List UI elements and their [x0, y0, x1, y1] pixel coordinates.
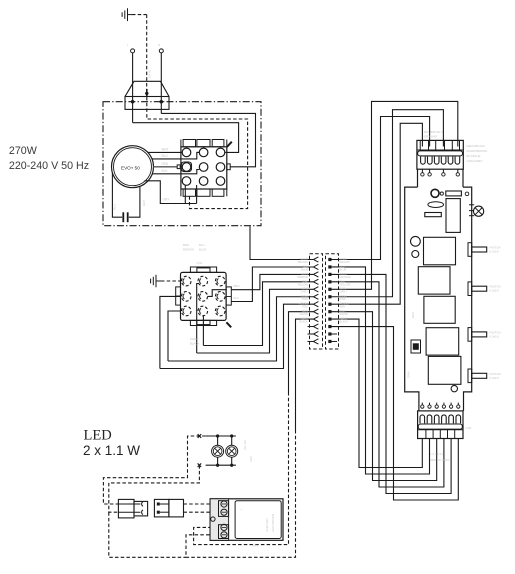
- X1 pin 2 (BLU): [199, 148, 208, 157]
- contact pair row 2: [313, 264, 331, 269]
- contact pair row 8: [313, 309, 331, 314]
- node dots on lamp buses: [216, 435, 233, 467]
- wire: jumper up to row3 col2: [196, 185, 198, 204]
- svg-text:GRY: GRY: [142, 200, 146, 206]
- svg-text:1 2 3 4 5 6: 1 2 3 4 5 6: [430, 452, 444, 456]
- fuse F1 body: [446, 191, 462, 196]
- wire: earth dashed route plug to motor connector: [147, 97, 248, 209]
- wire: CN2 to driver dashed 2: [184, 511, 219, 513]
- X2 pin 5: [198, 292, 208, 302]
- wire: X2 pin7 drop: [168, 311, 181, 361]
- wire: r2 to bottom connector pin 2: [332, 267, 430, 474]
- svg-text:BLK BRN BLU: BLK BRN BLU: [424, 130, 443, 134]
- svg-text:CN1: CN1: [197, 261, 203, 265]
- svg-text:GRY WHT: GRY WHT: [424, 135, 438, 139]
- LED driver PSU box: [210, 499, 283, 541]
- mount hole bottom: [451, 385, 457, 391]
- junction mark bottom: [198, 463, 202, 467]
- svg-text:YELLOW: YELLOW: [297, 282, 308, 286]
- svg-text:GRY: GRY: [411, 312, 415, 318]
- wire: r4 to bottom connector pin 4: [332, 282, 444, 487]
- svg-text:N: N: [158, 43, 160, 47]
- wire: r7 to top connector slot 1: [332, 123, 423, 304]
- svg-text:WHITE: WHITE: [340, 312, 349, 316]
- X2 left lug: [176, 287, 181, 305]
- motor connector X1 body: [181, 147, 227, 189]
- svg-text:BRN: BRN: [183, 243, 189, 247]
- control board outline: [405, 187, 419, 411]
- X1 pin 8 jumper: [199, 177, 208, 186]
- earth pin in plug: [145, 89, 148, 97]
- bottom connector body: [418, 411, 463, 439]
- X2 pin 4: [181, 292, 191, 302]
- plug X0 (mains terminal block): [125, 81, 169, 109]
- svg-text:BLACK: BLACK: [340, 320, 349, 324]
- X1 top lug 3: [212, 140, 224, 147]
- wire: L to motor connector (row1 right): [133, 123, 239, 153]
- relay K4: [426, 328, 459, 355]
- wire: r1 to top connector slot 2: [332, 117, 430, 260]
- wire: X2 right lug upper to r3: [231, 274, 313, 289]
- board top hook pin x=457.8: [456, 169, 459, 176]
- wire: CN2 to driver dashed 1: [184, 503, 219, 505]
- node: L at enclosure boundary: [131, 100, 134, 103]
- svg-text:EVO+ 50: EVO+ 50: [121, 165, 140, 170]
- svg-text:BLUE: BLUE: [301, 267, 308, 271]
- svg-text:GNYE: GNYE: [148, 70, 152, 78]
- svg-text:BROWN: BROWN: [298, 260, 308, 264]
- driver terminal 1: [221, 501, 227, 507]
- svg-text:BROWN: BROWN: [183, 248, 194, 252]
- X1 bottom lug 1: [183, 189, 195, 196]
- board bottom hook pin x=458.3: [457, 403, 460, 409]
- X1 bottom lug 2: [197, 189, 210, 196]
- wire: lamp bottom bus: [206, 464, 236, 466]
- wire: r4 to X2 pin8 (via staircase): [203, 282, 313, 346]
- wire: motor RED to middle tab: [153, 166, 177, 168]
- wire: LED feed from r8 to driver terminal 3: [194, 312, 314, 545]
- contact pair row 11: [308, 331, 338, 336]
- X1 right side lug: [227, 164, 230, 170]
- top connector slot dividers: [417, 140, 463, 150]
- driver terminal 4: [221, 532, 227, 538]
- top connector clamp bar: [418, 151, 463, 156]
- wire: X2 pin2 drop: [196, 321, 198, 353]
- X2 wire pin5 to right lug: [208, 290, 227, 297]
- svg-text:BRN BLU GRY: BRN BLU GRY: [430, 458, 450, 462]
- relay K2: [418, 267, 450, 294]
- connector pair CN2 male: [154, 499, 169, 517]
- resistor strip: [425, 213, 442, 217]
- bottom connector slot row: [418, 430, 463, 439]
- svg-text:BLACK: BLACK: [299, 320, 308, 324]
- svg-text:6,3x0,8: 6,3x0,8: [490, 334, 500, 338]
- bottom connector clamp bar: [418, 424, 462, 429]
- wire: X2 pin4 drop: [160, 296, 181, 368]
- spade terminal FA1: [468, 243, 487, 257]
- svg-text:BLU/BLUE: BLU/BLUE: [467, 154, 481, 158]
- junction mark top: [198, 434, 202, 438]
- svg-text:BRN: BRN: [234, 284, 240, 288]
- board neck top left: [417, 169, 419, 187]
- X2 pin 1: [181, 276, 191, 286]
- X1 arrow tick top right: [227, 142, 232, 147]
- spade terminal FA2: [468, 282, 487, 296]
- contact pair row 5: [313, 287, 331, 292]
- wire: motor BLK to row2 col2: [152, 170, 199, 174]
- lamp EL2 stems: [231, 436, 233, 465]
- svg-text:BLU: BLU: [199, 243, 204, 247]
- board top hook pin x=422.4: [421, 169, 424, 176]
- wire: r3 to bottom connector pin 5: [332, 274, 452, 493]
- capacitor C1 (motor run): [123, 212, 127, 222]
- svg-text:CN2: CN2: [466, 426, 472, 430]
- terminal N (supply): [159, 49, 163, 53]
- indicator ring (buzzer): [431, 189, 439, 197]
- relay K3: [424, 296, 455, 323]
- component Q1 (black): [411, 340, 421, 353]
- svg-text:LED: LED: [84, 428, 112, 444]
- wire: enclosure to connector row r1: [250, 226, 313, 259]
- svg-text:BLUE: BLUE: [340, 267, 347, 271]
- contact pair row 1: [313, 257, 331, 262]
- interconnect female housing (dashed): [310, 254, 323, 349]
- wire: X2 pin8 drop: [202, 316, 205, 346]
- relay K1: [424, 237, 456, 264]
- spade terminal FA4: [468, 369, 487, 383]
- connector pair CN2 female: [169, 499, 184, 517]
- contact pair row 6: [313, 294, 331, 299]
- driver terminal strip background: [210, 499, 229, 541]
- svg-text:BLU: BLU: [113, 204, 117, 210]
- X1 top lug 1: [183, 140, 195, 147]
- terminal L (supply): [131, 49, 135, 53]
- wire: r10 to bottom connector pin 6: [332, 327, 459, 500]
- svg-text:ALIM.LED: ALIM.LED: [265, 517, 269, 532]
- bottom connector loops: [420, 415, 461, 424]
- middle connector X2 body: [181, 272, 227, 320]
- fuse F1 left dot: [440, 192, 443, 195]
- X2 arrow tick bottom right: [226, 322, 231, 327]
- contact pair row 3: [313, 272, 331, 277]
- board bottom hook pin x=429.5: [428, 403, 431, 409]
- driver terminal block upper: [219, 501, 229, 517]
- motor enclosure (dash-dot boundary): [103, 102, 261, 226]
- svg-text:BLACK: BLACK: [190, 342, 200, 346]
- svg-text:GRY: GRY: [252, 544, 258, 548]
- wire: N to motor connector (row2 right tab): [161, 113, 255, 166]
- X2 pin 3: [215, 276, 225, 286]
- LED lamp EL2: [226, 445, 238, 457]
- spade terminal FA3: [468, 328, 487, 342]
- connector pair CN1 female: [134, 501, 148, 516]
- svg-text:NERO: NERO: [190, 337, 199, 341]
- svg-text:PINK: PINK: [302, 297, 308, 301]
- svg-text:GRN: GRN: [407, 371, 411, 378]
- board bottom hook pin x=422.3: [421, 403, 424, 409]
- fuse F1 right dot: [465, 192, 469, 196]
- board neck top right: [462, 169, 464, 187]
- wire: motor GRY to row3 jumper: [145, 181, 197, 204]
- wire: r6 to X2 pin7 (via staircase): [168, 297, 313, 361]
- svg-text:RED: RED: [340, 305, 346, 309]
- svg-text:2 x 1.1 W: 2 x 1.1 W: [83, 443, 140, 458]
- svg-text:BLU: BLU: [234, 296, 240, 300]
- X1 pin 4 (RED): [182, 163, 191, 172]
- svg-text:MARR/BROWN: MARR/BROWN: [467, 149, 487, 153]
- wire: jumper up to row3 col1: [184, 185, 186, 204]
- X2 pin 2: [198, 276, 208, 286]
- svg-text:BLK: BLK: [162, 169, 169, 173]
- driver terminal 2: [221, 509, 227, 515]
- mount circle big: [411, 236, 421, 246]
- X1 top lug 2: [197, 140, 210, 147]
- svg-text:WHITE: WHITE: [300, 312, 309, 316]
- X2 pin 6: [215, 292, 225, 302]
- ground (mains earth, top): [122, 8, 132, 21]
- wire: lamp top bus: [206, 435, 236, 437]
- X1 body edge extensions: [181, 140, 227, 197]
- wire: L supply lead: [132, 53, 134, 123]
- X2 pin 8: [198, 306, 208, 316]
- svg-text:GREY: GREY: [340, 290, 348, 294]
- ground (middle connector): [151, 275, 161, 288]
- svg-text:2x1,1W: 2x1,1W: [243, 440, 247, 450]
- svg-text:YELLOW: YELLOW: [340, 282, 351, 286]
- ellipse component (buzzer): [428, 202, 444, 208]
- svg-text:6,3x0,8: 6,3x0,8: [490, 289, 500, 293]
- motor M1 EVO+ 50: [112, 146, 154, 188]
- X1 pin 6 to N: [216, 163, 225, 172]
- contact pair row 12: [308, 339, 338, 344]
- svg-text:GRIG/GREY: GRIG/GREY: [467, 159, 483, 163]
- wire: r9 to bottom connector pin 1: [332, 319, 423, 467]
- X1 pin 4 D-housing: [181, 162, 191, 172]
- top terminal connector body: [417, 140, 463, 169]
- X1 bottom lug 3: [212, 189, 224, 196]
- driver label panel: [235, 501, 281, 539]
- driver terminal block lower: [219, 525, 229, 539]
- X2 bottom lug: [190, 320, 216, 325]
- relay K5: [428, 356, 461, 384]
- contact pair row 4: [313, 279, 331, 284]
- wire: X2 right lug lower to r2: [231, 267, 313, 302]
- board top hook pin x=429.6: [428, 169, 431, 176]
- svg-text:GRY: GRY: [163, 198, 171, 202]
- wire: lamp top bus dashed to connector: [103, 436, 205, 504]
- wire: motor WHT to row1 col1: [148, 151, 182, 153]
- lamp EL1 stems: [217, 436, 219, 465]
- wire: LED feed from r9 to driver terminal 4: [186, 319, 313, 557]
- wire: earth dashed from ground to plug: [132, 15, 147, 90]
- X1 pin 9: [216, 177, 225, 186]
- X2 pin 9: [215, 306, 225, 316]
- board top hook pin x=443.4: [442, 169, 445, 176]
- X2 right lug: [226, 287, 231, 305]
- svg-text:NERO/BLACK: NERO/BLACK: [467, 144, 486, 148]
- wire: r7 to X2 pin4 (via staircase): [160, 304, 313, 368]
- top connector wire loops: [421, 157, 460, 165]
- X2 top lug: [190, 267, 216, 272]
- X1 internal link pin2: [197, 151, 200, 153]
- svg-text:6,3x0,8: 6,3x0,8: [490, 250, 500, 254]
- wire color labels (decorative faint): [113, 43, 501, 548]
- svg-text:ORANGE: ORANGE: [297, 275, 309, 279]
- svg-text:BLU: BLU: [162, 154, 169, 158]
- contact pair row 10: [308, 324, 332, 329]
- wire: r6 to top connector slot 4: [332, 110, 444, 297]
- X1 pin 3 to L: [216, 148, 225, 157]
- svg-text:+: +: [241, 507, 243, 511]
- driver terminal 3: [221, 524, 227, 530]
- connector pair CN1 male: [118, 499, 140, 518]
- svg-text:GREY: GREY: [301, 290, 309, 294]
- svg-text:LED DRIVER: LED DRIVER: [271, 513, 275, 532]
- X2 pin 7: [181, 306, 191, 316]
- svg-text:PINK: PINK: [340, 297, 346, 301]
- relay RL1 tall: [446, 199, 460, 233]
- svg-text:ORANGE: ORANGE: [340, 275, 352, 279]
- board bottom hook pin x=443.9: [442, 403, 445, 409]
- svg-text:RED: RED: [303, 305, 309, 309]
- svg-text:270W: 270W: [9, 145, 38, 157]
- svg-text:BROWN: BROWN: [340, 260, 350, 264]
- svg-text:BLUE: BLUE: [199, 248, 206, 252]
- svg-text:220-240 V 50 Hz: 220-240 V 50 Hz: [9, 160, 89, 172]
- wire: r8 to bottom connector pin 3: [332, 312, 437, 481]
- LED lamp EL1: [212, 445, 224, 457]
- motor middle terminal lug: [177, 165, 180, 169]
- wire: dashed corner bottom-left: [109, 512, 186, 557]
- X1 pin 5 (BLK): [199, 163, 208, 172]
- driver pilot circle: [211, 517, 215, 521]
- X1 pin 7 (GRY): [182, 177, 191, 186]
- svg-text:6,3x0,8: 6,3x0,8: [490, 376, 500, 380]
- wire: lamp bottom bus dashed to connector: [109, 465, 200, 512]
- wire: N supply lead: [160, 53, 162, 114]
- contact pair row 9: [313, 317, 331, 322]
- board bottom hook pin x=436.7: [435, 403, 438, 409]
- wire: r5 to X2 pin2 (via staircase): [197, 289, 314, 353]
- lamp symbol on board edge: [469, 205, 484, 216]
- wire: motor to capacitor right: [129, 186, 140, 217]
- interconnect male housing (dashed): [326, 254, 339, 349]
- wire: earth dashed to X2: [161, 280, 181, 282]
- svg-text:LED: LED: [249, 456, 253, 462]
- wire: motor BLU to row1 col2: [152, 152, 200, 159]
- node: N at enclosure boundary: [160, 100, 163, 103]
- wire: r5 to top connector slot 6: [332, 101, 458, 289]
- X1 pin 1 (WHT): [182, 148, 191, 157]
- svg-text:RED: RED: [162, 162, 169, 166]
- svg-text:-: -: [241, 529, 242, 533]
- svg-text:WHT: WHT: [162, 148, 169, 152]
- X2 wire pin2 down to bottom: [197, 284, 199, 322]
- mount circle small: [412, 251, 419, 258]
- wire: motor to capacitor left: [112, 173, 122, 218]
- contact pair row 7: [313, 302, 331, 307]
- board bottom hook pin x=451.1: [449, 403, 452, 409]
